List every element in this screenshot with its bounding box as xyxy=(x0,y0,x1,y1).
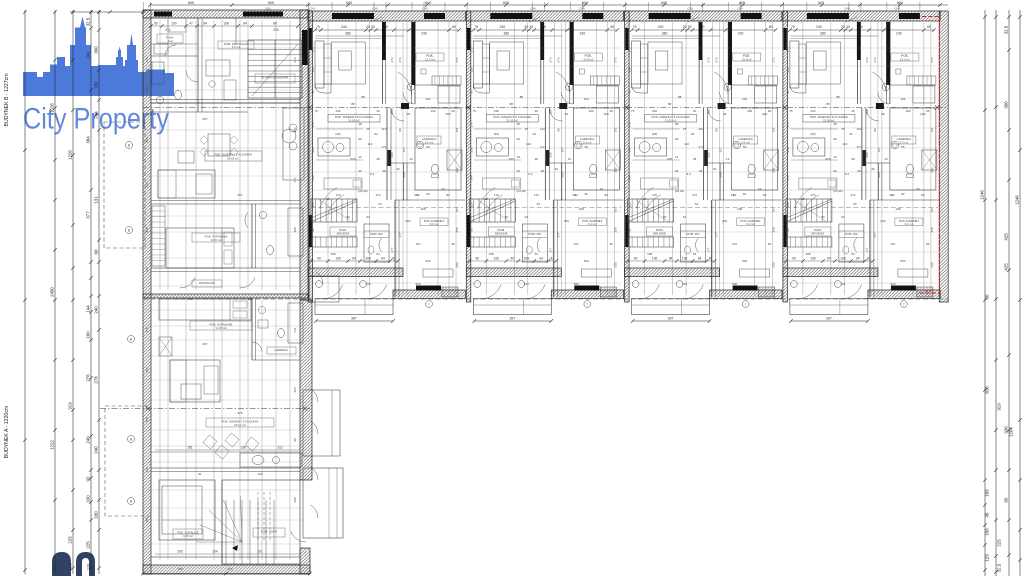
svg-text:100: 100 xyxy=(86,495,91,503)
svg-text:141: 141 xyxy=(293,327,297,332)
A bath top extras xyxy=(259,307,266,314)
svg-text:(24): (24) xyxy=(309,7,314,11)
svg-text:425: 425 xyxy=(1004,233,1009,241)
housing unit 1 xyxy=(308,2,465,323)
svg-text:360: 360 xyxy=(94,46,99,54)
svg-text:212: 212 xyxy=(167,39,172,43)
building top wall xyxy=(143,10,308,18)
svg-text:258: 258 xyxy=(145,137,149,142)
B wardrobe xyxy=(152,206,165,266)
svg-text:175: 175 xyxy=(145,57,149,62)
svg-text:120: 120 xyxy=(145,467,149,472)
building divider wall xyxy=(143,294,308,298)
svg-text:605: 605 xyxy=(188,1,194,5)
right outer wall xyxy=(939,11,948,302)
svg-text:32.5: 32.5 xyxy=(997,563,1002,572)
B staircase xyxy=(248,40,302,98)
svg-text:(24): (24) xyxy=(265,7,270,11)
svg-text:90: 90 xyxy=(293,438,297,442)
B bath fixtures xyxy=(175,90,182,99)
B top rooms xyxy=(197,18,199,112)
svg-text:32.5: 32.5 xyxy=(1004,25,1009,34)
svg-text:605: 605 xyxy=(897,1,903,5)
svg-text:225: 225 xyxy=(997,539,1002,547)
svg-text:100: 100 xyxy=(177,567,182,571)
City Property logo skyline xyxy=(23,17,174,97)
B living room xyxy=(205,151,262,161)
svg-text:(24): (24) xyxy=(687,7,692,11)
B bed xyxy=(166,228,234,268)
B kitchen xyxy=(283,108,304,180)
top dimension line xyxy=(150,4,948,6)
A bedroom2 xyxy=(159,480,215,540)
svg-text:605: 605 xyxy=(582,1,588,5)
svg-text:213: 213 xyxy=(293,57,297,62)
svg-text:B: B xyxy=(128,228,130,232)
svg-text:(24): (24) xyxy=(737,7,742,11)
svg-text:100: 100 xyxy=(86,331,91,339)
svg-text:276: 276 xyxy=(86,374,91,382)
logo base bar xyxy=(23,88,174,96)
B lower wall xyxy=(151,267,300,269)
svg-text:BUDYNEK A - 1220cm: BUDYNEK A - 1220cm xyxy=(4,406,10,458)
svg-text:254: 254 xyxy=(293,387,297,392)
terrace dashed xyxy=(105,406,151,516)
svg-text:377: 377 xyxy=(86,211,91,219)
building bottom wall xyxy=(143,565,310,574)
svg-text:104: 104 xyxy=(227,567,232,571)
housing unit 2 xyxy=(466,2,623,323)
svg-text:144: 144 xyxy=(86,305,91,313)
A porch right2 xyxy=(303,468,343,538)
svg-text:(24): (24) xyxy=(422,7,427,11)
svg-text:84: 84 xyxy=(273,22,277,26)
A lower wall xyxy=(151,467,300,469)
svg-text:(24): (24) xyxy=(894,7,899,11)
svg-text:605: 605 xyxy=(818,1,824,5)
svg-text:9,05 m2: 9,05 m2 xyxy=(183,534,193,538)
A sofa xyxy=(170,360,220,402)
svg-text:336: 336 xyxy=(1004,426,1009,434)
B bedroom label xyxy=(192,233,240,242)
svg-text:131: 131 xyxy=(94,196,99,204)
svg-text:91: 91 xyxy=(198,472,202,476)
svg-text:605: 605 xyxy=(739,1,745,5)
svg-text:150: 150 xyxy=(94,81,99,89)
B coffee table xyxy=(178,151,194,163)
building right wall B xyxy=(300,10,309,300)
svg-text:384: 384 xyxy=(86,136,91,144)
svg-text:240: 240 xyxy=(94,446,99,454)
B top dim row xyxy=(151,25,298,27)
A wc bottom xyxy=(221,480,223,564)
red evacuation dashed line xyxy=(919,17,940,294)
svg-text:2450: 2450 xyxy=(50,287,55,297)
A porch right1 xyxy=(303,390,340,456)
A bed top xyxy=(159,299,251,320)
A bed label xyxy=(190,321,252,330)
section line lower xyxy=(143,298,948,300)
terrace markers xyxy=(128,336,135,343)
svg-text:225: 225 xyxy=(86,541,91,549)
svg-text:106: 106 xyxy=(985,489,990,497)
svg-text:1026: 1026 xyxy=(50,103,55,113)
svg-text:B: B xyxy=(130,499,132,503)
section line A-building xyxy=(100,408,310,410)
svg-text:344: 344 xyxy=(145,182,149,187)
terrace B dashed xyxy=(104,122,145,248)
svg-text:129: 129 xyxy=(985,554,990,562)
svg-text:457: 457 xyxy=(202,117,207,121)
svg-text:104: 104 xyxy=(212,550,218,554)
svg-text:1226: 1226 xyxy=(68,150,73,160)
svg-text:45: 45 xyxy=(985,512,990,517)
B corridor xyxy=(180,278,195,289)
svg-text:WIATROLAP: WIATROLAP xyxy=(199,281,215,285)
svg-text:360: 360 xyxy=(1004,101,1009,109)
svg-text:60: 60 xyxy=(1004,497,1009,502)
A bath top xyxy=(251,298,253,360)
svg-text:B: B xyxy=(130,437,132,441)
svg-text:1222: 1222 xyxy=(50,440,55,450)
svg-text:240: 240 xyxy=(86,436,91,444)
svg-text:457: 457 xyxy=(237,193,242,197)
left dimension lines xyxy=(24,10,26,574)
A kitchen xyxy=(151,451,300,453)
svg-text:47: 47 xyxy=(189,22,193,26)
svg-text:425: 425 xyxy=(1004,263,1009,271)
A stairs bottom xyxy=(222,480,300,564)
svg-text:1204: 1204 xyxy=(1009,427,1014,437)
svg-text:1246: 1246 xyxy=(1015,195,1020,205)
svg-text:LAZIENKA: LAZIENKA xyxy=(274,348,288,352)
svg-text:358: 358 xyxy=(145,417,149,422)
A dim row xyxy=(155,449,300,451)
A coffee table xyxy=(181,384,201,399)
svg-text:919: 919 xyxy=(997,403,1002,411)
svg-text:3,5 m2: 3,5 m2 xyxy=(232,45,241,49)
svg-text:919: 919 xyxy=(68,402,73,410)
building bottom outer dim xyxy=(143,573,310,575)
svg-text:818: 818 xyxy=(985,386,990,394)
svg-text:244: 244 xyxy=(94,111,99,119)
svg-text:358: 358 xyxy=(293,497,297,502)
building right wall A xyxy=(300,300,312,480)
svg-text:358: 358 xyxy=(145,517,149,522)
B bedroom wall xyxy=(151,203,300,205)
svg-text:213: 213 xyxy=(145,87,149,92)
housing unit 4 xyxy=(783,2,940,323)
svg-text:60: 60 xyxy=(154,22,158,26)
svg-text:100: 100 xyxy=(94,511,99,519)
svg-text:358: 358 xyxy=(293,227,297,232)
B sofa xyxy=(158,170,215,198)
svg-text:240: 240 xyxy=(94,306,99,314)
svg-text:26,65 m2: 26,65 m2 xyxy=(227,156,239,160)
svg-text:130: 130 xyxy=(257,472,262,476)
housing unit 3 xyxy=(625,2,782,323)
right dimension lines xyxy=(984,10,986,576)
svg-text:177: 177 xyxy=(293,177,297,182)
svg-text:(24): (24) xyxy=(372,7,377,11)
section line AA xyxy=(143,107,948,109)
svg-text:34,10 m2: 34,10 m2 xyxy=(234,423,246,427)
svg-text:241: 241 xyxy=(86,51,91,59)
svg-text:84: 84 xyxy=(203,22,207,26)
B mid wall xyxy=(151,102,300,104)
svg-text:278: 278 xyxy=(94,376,99,384)
svg-text:108: 108 xyxy=(223,22,229,26)
svg-text:32.5: 32.5 xyxy=(86,17,91,26)
svg-text:225: 225 xyxy=(68,536,73,544)
svg-text:B: B xyxy=(128,143,130,147)
B porch right xyxy=(309,276,339,302)
B dining xyxy=(208,134,230,156)
svg-text:457: 457 xyxy=(202,342,207,346)
svg-text:60: 60 xyxy=(94,249,99,254)
svg-text:(24): (24) xyxy=(579,7,584,11)
svg-text:92: 92 xyxy=(86,476,91,481)
svg-text:254: 254 xyxy=(293,127,297,132)
svg-text:605: 605 xyxy=(346,1,352,5)
svg-text:605: 605 xyxy=(661,1,667,5)
A bottom dim row xyxy=(155,553,300,555)
building left wall xyxy=(143,10,151,574)
A dining xyxy=(203,435,217,449)
svg-text:100: 100 xyxy=(177,550,183,554)
svg-text:605: 605 xyxy=(425,1,431,5)
svg-text:120: 120 xyxy=(145,267,149,272)
svg-text:1246: 1246 xyxy=(980,190,985,200)
B top extra walls xyxy=(151,43,198,45)
svg-text:106: 106 xyxy=(985,528,990,536)
A wardrobe xyxy=(159,337,172,356)
svg-text:(24): (24) xyxy=(530,7,535,11)
svg-text:11,65 m2: 11,65 m2 xyxy=(210,238,222,242)
svg-text:(24): (24) xyxy=(844,7,849,11)
svg-text:11,05 m2: 11,05 m2 xyxy=(215,326,227,330)
svg-text:358: 358 xyxy=(145,227,149,232)
B bath2 xyxy=(251,204,253,268)
B top hall label xyxy=(218,41,254,49)
svg-text:100: 100 xyxy=(171,22,177,26)
svg-text:BUDYNEK B - 1227cm: BUDYNEK B - 1227cm xyxy=(4,73,10,126)
partial watermark bottom xyxy=(52,552,71,576)
svg-text:254: 254 xyxy=(145,367,149,372)
svg-text:64: 64 xyxy=(243,22,247,26)
top left dim stub xyxy=(70,11,143,13)
B guide lines xyxy=(159,20,161,290)
svg-text:175: 175 xyxy=(145,327,149,332)
A living label xyxy=(206,418,274,427)
svg-text:60: 60 xyxy=(985,294,990,299)
svg-text:605: 605 xyxy=(268,1,274,5)
svg-text:POM. GOSP.: POM. GOSP. xyxy=(261,530,278,534)
svg-text:B: B xyxy=(130,337,132,341)
svg-text:32,5: 32,5 xyxy=(925,289,931,293)
svg-text:625: 625 xyxy=(237,411,242,415)
svg-text:KLATKA SCHODOWA: KLATKA SCHODOWA xyxy=(262,76,289,80)
svg-text:605: 605 xyxy=(503,1,509,5)
